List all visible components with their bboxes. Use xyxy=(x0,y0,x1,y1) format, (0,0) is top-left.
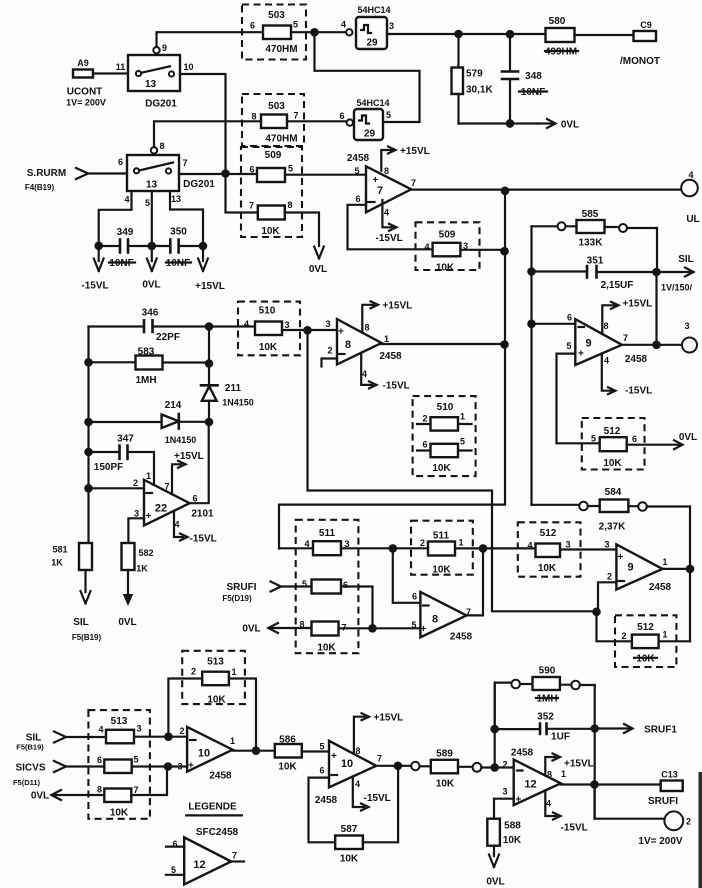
svg-text:2: 2 xyxy=(420,538,425,548)
svg-text:SFC2458: SFC2458 xyxy=(196,827,239,838)
svg-text:10K: 10K xyxy=(636,654,655,665)
svg-text:509: 509 xyxy=(265,150,282,161)
svg-text:+: + xyxy=(188,761,194,772)
svg-text:2: 2 xyxy=(133,478,138,488)
junction cap346 right xyxy=(205,322,214,331)
schmitt inverter 54HC14 (lower) xyxy=(339,98,391,140)
junction op10 output xyxy=(252,746,261,755)
pin 9 bubble xyxy=(153,47,159,53)
+15VL arrow mid op8 xyxy=(362,301,412,333)
svg-text:470HM: 470HM xyxy=(265,134,297,145)
vertical junction down to lower rail xyxy=(308,330,597,611)
svg-text:SRUFI: SRUFI xyxy=(227,582,257,593)
svg-text:-15VL: -15VL xyxy=(364,793,391,804)
left node vertical (585/351/op9 minus) xyxy=(530,226,532,505)
svg-text:0VL: 0VL xyxy=(31,791,49,802)
svg-text:348: 348 xyxy=(525,71,542,82)
svg-text:589: 589 xyxy=(436,749,453,760)
resistor 513 pins 6-5 xyxy=(97,755,139,774)
svg-text:352: 352 xyxy=(537,712,554,723)
wire SICVS to 513 xyxy=(66,765,104,767)
svg-text:4: 4 xyxy=(527,541,532,551)
svg-text:3: 3 xyxy=(389,21,394,31)
svg-text:+15VL: +15VL xyxy=(400,146,430,157)
junction dots supply row xyxy=(94,242,103,251)
svg-text:1: 1 xyxy=(458,538,463,548)
svg-text:1V/150/: 1V/150/ xyxy=(661,283,693,293)
input SRUFI xyxy=(222,582,281,604)
svg-text:4: 4 xyxy=(174,520,179,530)
junction minus node xyxy=(592,608,601,617)
junction 509-3 xyxy=(500,247,509,256)
svg-text:9: 9 xyxy=(162,43,167,53)
capacitor 347 150PF xyxy=(89,434,155,486)
resistor 509 pins 7-8 xyxy=(249,200,293,237)
leads pins 4,5,13 xyxy=(99,191,132,242)
svg-text:2: 2 xyxy=(191,667,196,677)
resistor 511 pins 8-7 xyxy=(299,620,346,654)
junction 511 output xyxy=(389,544,398,553)
module 510 (floating) dashed box xyxy=(413,396,476,476)
junction op10 plus xyxy=(164,762,173,771)
svg-text:4: 4 xyxy=(424,242,429,252)
input SIL xyxy=(16,732,66,752)
svg-text:+: + xyxy=(618,552,624,563)
svg-text:1N4150: 1N4150 xyxy=(165,435,197,445)
svg-text:3: 3 xyxy=(502,787,507,797)
capacitor 350 10NF xyxy=(152,227,203,270)
svg-text:1N4150: 1N4150 xyxy=(222,398,254,408)
svg-text:8: 8 xyxy=(603,321,608,331)
svg-text:7: 7 xyxy=(249,201,254,211)
svg-text:2: 2 xyxy=(422,414,427,424)
svg-text:7: 7 xyxy=(133,785,138,795)
svg-text:6: 6 xyxy=(632,434,637,444)
svg-text:+15VL: +15VL xyxy=(564,759,594,770)
svg-text:2458: 2458 xyxy=(347,153,370,164)
svg-text:1V= 200V: 1V= 200V xyxy=(66,98,106,108)
junction op9 output xyxy=(652,341,661,350)
svg-text:0VL: 0VL xyxy=(118,617,136,628)
wire 513 feedback right down to output xyxy=(229,679,256,752)
wire node A down to resistor 509 pin 7 xyxy=(226,174,258,213)
svg-text:UCONT: UCONT xyxy=(67,87,103,98)
svg-text:10K: 10K xyxy=(340,854,359,865)
vertical 352/589 node xyxy=(494,683,496,768)
diode 214 1N4150 xyxy=(89,400,210,445)
junction op9 minus xyxy=(527,320,536,329)
svg-text:+: + xyxy=(146,511,152,522)
wire 587 to output node xyxy=(363,766,398,843)
svg-text:350: 350 xyxy=(170,227,187,238)
svg-text:585: 585 xyxy=(582,209,599,220)
wire op7 minus feedback path xyxy=(348,205,433,250)
svg-text:4: 4 xyxy=(124,195,129,205)
svg-text:4: 4 xyxy=(546,799,551,809)
svg-text:8: 8 xyxy=(384,166,389,176)
svg-text:579: 579 xyxy=(466,69,483,80)
svg-text:510: 510 xyxy=(259,306,276,317)
wire SRUFI to 511 pin5 xyxy=(281,585,312,587)
arrow 0VL right xyxy=(538,119,579,131)
svg-text:10K: 10K xyxy=(278,762,297,773)
resistor 513 pins 8-7 xyxy=(97,785,139,819)
svg-text:6: 6 xyxy=(422,440,427,450)
analog switch DG201 (upper) xyxy=(128,55,180,110)
diode 211 1N4150 xyxy=(201,383,254,422)
svg-text:2458: 2458 xyxy=(450,632,473,643)
ground arrow -15VL xyxy=(81,250,108,292)
svg-text:3: 3 xyxy=(284,320,289,330)
resistor 510 pins 2-1 xyxy=(417,412,472,431)
wire inverter1 output main top rail xyxy=(387,33,546,35)
svg-text:1MH: 1MH xyxy=(135,375,156,386)
svg-text:SIL: SIL xyxy=(73,617,89,628)
resistor 512 pins 2-1 10K xyxy=(621,630,667,665)
svg-text:10: 10 xyxy=(341,758,353,770)
wire op22 minus input xyxy=(89,487,145,489)
capacitor 351 2,15UF xyxy=(532,256,657,292)
svg-text:2101: 2101 xyxy=(191,509,214,520)
wire op10 output xyxy=(233,750,275,752)
svg-text:/MONOT: /MONOT xyxy=(620,56,660,67)
svg-text:0VL: 0VL xyxy=(309,264,327,275)
op-amp 12 (2458) xyxy=(502,748,566,809)
svg-text:0VL: 0VL xyxy=(142,280,160,291)
svg-text:580: 580 xyxy=(549,16,566,27)
wire to op12 minus xyxy=(481,766,513,768)
svg-text:211: 211 xyxy=(225,383,242,394)
svg-text:512: 512 xyxy=(540,528,557,539)
svg-text:2458: 2458 xyxy=(649,582,672,593)
svg-text:1: 1 xyxy=(384,334,389,344)
svg-text:10K: 10K xyxy=(538,563,557,574)
svg-text:2: 2 xyxy=(502,760,507,770)
junction op10 minus xyxy=(164,732,173,741)
wire S.RURM to pin 6 xyxy=(88,172,127,174)
wire op9 minus input xyxy=(532,323,576,325)
ground arrow 0VL (588) xyxy=(486,846,504,888)
module 503 (lower) dashed box xyxy=(242,94,304,146)
svg-text:22: 22 xyxy=(155,503,167,515)
svg-text:6: 6 xyxy=(567,313,572,323)
svg-text:6: 6 xyxy=(339,111,344,121)
scan edge artifact xyxy=(699,772,702,888)
junction op8 feedback xyxy=(479,544,488,553)
arrow SRUF1 output xyxy=(595,724,678,736)
resistor 585 133K xyxy=(532,209,658,249)
svg-text:10K: 10K xyxy=(317,643,336,654)
svg-text:8: 8 xyxy=(159,141,164,151)
wire DG201 pin8 to 503 pin8 xyxy=(154,121,261,147)
svg-text:5: 5 xyxy=(293,20,298,30)
wire minus node down to 512 feedback xyxy=(597,612,632,642)
wire feedback 513 left vertical xyxy=(168,679,202,737)
wire op22 plus input to 582 xyxy=(128,518,144,543)
svg-text:5: 5 xyxy=(460,437,465,447)
svg-text:584: 584 xyxy=(605,487,622,498)
wire pin 7 output row xyxy=(179,173,258,175)
legend xyxy=(186,802,242,839)
svg-text:6: 6 xyxy=(250,21,255,31)
svg-text:0VL: 0VL xyxy=(561,120,579,131)
svg-text:8: 8 xyxy=(432,614,438,626)
svg-text:2: 2 xyxy=(179,726,184,736)
svg-text:LEGENDE: LEGENDE xyxy=(188,802,237,813)
wire op8 output feedback up xyxy=(467,548,484,615)
-15VL arrow op12 xyxy=(545,790,587,833)
open circle link 2 xyxy=(473,763,482,772)
module 510 dashed box (oscillator) xyxy=(238,302,300,356)
op-amp 9 (2458 upper) xyxy=(566,313,647,366)
svg-text:F5(D11): F5(D11) xyxy=(13,778,41,787)
wire 590 right down through outputs xyxy=(594,685,596,819)
arrow 0VL (512 module) xyxy=(627,432,697,449)
junction op9 lower output xyxy=(686,565,695,574)
resistor 580 499HM xyxy=(545,16,578,58)
svg-text:11: 11 xyxy=(116,62,126,72)
svg-text:512: 512 xyxy=(637,622,654,633)
arrow 0VL (513) xyxy=(31,790,104,802)
wire 513 pin5 to op10 plus xyxy=(132,765,187,767)
svg-text:22PF: 22PF xyxy=(156,332,180,343)
wire mid op8 output xyxy=(382,343,505,345)
svg-text:+: + xyxy=(331,751,337,762)
wire to 589 xyxy=(420,765,431,767)
op-amp 10 (2458) xyxy=(177,726,235,782)
wire op12 plus to 588 xyxy=(494,799,514,819)
svg-text:-15VL: -15VL xyxy=(561,823,588,834)
svg-text:+: + xyxy=(578,349,584,360)
svg-text:UL: UL xyxy=(686,214,699,225)
svg-text:1: 1 xyxy=(460,412,465,422)
svg-text:-15VL: -15VL xyxy=(376,233,403,244)
module 509 (right) dashed box xyxy=(416,222,480,270)
svg-text:2458: 2458 xyxy=(379,351,402,362)
svg-text:7: 7 xyxy=(164,482,169,492)
resistor 511 pins 4-3 xyxy=(304,539,349,555)
capacitor 346 22PF xyxy=(89,308,210,344)
wire junction to inverter2 output (L path) xyxy=(315,32,420,122)
wire 513 pin3 to op10 minus xyxy=(134,736,187,738)
junction 352 right xyxy=(590,724,599,733)
svg-text:+15VL: +15VL xyxy=(623,299,653,310)
svg-text:349: 349 xyxy=(117,227,134,238)
module 503 (upper) dashed box xyxy=(242,5,306,60)
svg-text:0VL: 0VL xyxy=(679,432,697,443)
-15VL arrow op10b xyxy=(353,777,391,811)
svg-text:6: 6 xyxy=(192,494,197,504)
op-amp 7 (2458) xyxy=(347,153,416,218)
svg-text:0VL: 0VL xyxy=(242,624,260,635)
svg-text:3: 3 xyxy=(565,540,570,550)
label SIL F5(B19) xyxy=(72,617,102,642)
svg-text:DG201: DG201 xyxy=(183,179,215,190)
+15VL arrow op12 xyxy=(545,754,593,776)
pin 8 bubble on DG201 lower xyxy=(151,147,157,153)
junction at 348 top xyxy=(506,30,515,39)
svg-text:SRUFI: SRUFI xyxy=(648,796,678,807)
wire A9 to pin 11 xyxy=(93,72,128,74)
svg-text:13: 13 xyxy=(146,180,158,191)
svg-text:10K: 10K xyxy=(436,263,455,274)
wire op10b minus to 587 xyxy=(309,778,336,843)
svg-text:4: 4 xyxy=(341,20,346,30)
resistor 512 pins 5-6 10K xyxy=(591,434,637,470)
svg-text:7: 7 xyxy=(411,178,416,188)
+15VL arrow op7 xyxy=(381,146,429,171)
svg-text:6: 6 xyxy=(118,157,123,167)
connector A9 xyxy=(73,58,93,78)
svg-text:3: 3 xyxy=(684,321,689,331)
resistor 584 2,37K xyxy=(532,487,691,533)
svg-text:6: 6 xyxy=(343,580,348,590)
svg-text:4: 4 xyxy=(244,319,249,329)
analog switch DG201 (lower) xyxy=(127,155,215,191)
junction 352 left xyxy=(490,725,499,734)
junction below 503 output xyxy=(310,28,319,37)
input SICVS xyxy=(13,761,66,787)
svg-text:5: 5 xyxy=(171,865,176,875)
wire 512 pin3 to op9 lower plus xyxy=(560,548,616,550)
svg-text:2: 2 xyxy=(621,631,626,641)
svg-text:A9: A9 xyxy=(77,58,89,68)
schmitt inverter 54HC14 (upper) xyxy=(341,5,394,49)
svg-text:1: 1 xyxy=(146,471,151,481)
resistor 588 10K xyxy=(487,819,522,846)
wire op9 plus input down to 512 module xyxy=(557,354,600,444)
svg-text:SICVS: SICVS xyxy=(15,763,45,774)
svg-text:3: 3 xyxy=(177,762,182,772)
svg-text:4: 4 xyxy=(98,725,103,735)
svg-text:8: 8 xyxy=(345,339,351,351)
wire 586 to op10b plus xyxy=(302,750,329,752)
resistor 513 pins 2-1 10K xyxy=(191,667,237,706)
ground arrow 0VL (509) xyxy=(309,247,327,276)
wire 509 pin8 down to ground xyxy=(285,213,319,247)
op-amp 8 (2458 mid) xyxy=(325,319,402,379)
svg-text:10: 10 xyxy=(198,748,210,760)
junction 214 right xyxy=(205,418,214,427)
svg-text:5: 5 xyxy=(288,164,293,174)
svg-text:54HC14: 54HC14 xyxy=(356,98,389,108)
resistor 510 pins 4-3 10K xyxy=(244,319,290,353)
resistor 509 pins 4-3 10K xyxy=(424,241,468,274)
svg-text:581: 581 xyxy=(52,545,67,555)
svg-text:+15VL: +15VL xyxy=(174,451,204,462)
svg-text:4: 4 xyxy=(355,779,360,789)
svg-text:SIL: SIL xyxy=(678,254,694,265)
svg-text:3: 3 xyxy=(136,724,141,734)
wire op10b output xyxy=(376,765,411,767)
svg-text:29: 29 xyxy=(364,129,376,140)
svg-text:347: 347 xyxy=(117,434,134,445)
svg-text:7: 7 xyxy=(377,754,382,764)
svg-text:1: 1 xyxy=(662,557,667,567)
resistor 583 1MH xyxy=(89,347,210,387)
svg-text:+: + xyxy=(421,624,427,635)
svg-text:+: + xyxy=(516,795,522,806)
op-amp 9 (2458 lower right) xyxy=(604,540,671,594)
svg-text:5: 5 xyxy=(591,434,596,444)
wire 511 pin6 down xyxy=(341,587,373,629)
+15VL arrow op22 xyxy=(172,451,204,494)
module 512 dashed box (to 0VL) xyxy=(582,418,645,470)
svg-text:C9: C9 xyxy=(640,20,652,30)
svg-text:5: 5 xyxy=(319,742,324,752)
svg-text:2458: 2458 xyxy=(315,795,338,806)
+15VL arrow op9 xyxy=(602,299,652,335)
svg-text:1K: 1K xyxy=(136,564,148,574)
wire output down to connector 2 xyxy=(595,785,665,819)
svg-text:511: 511 xyxy=(319,528,336,539)
wire 510 pin3 to mid op-amp xyxy=(282,329,337,331)
svg-text:4: 4 xyxy=(688,170,693,180)
resistor 586 10K xyxy=(275,735,302,773)
svg-text:7: 7 xyxy=(623,333,628,343)
svg-text:7: 7 xyxy=(377,185,383,197)
svg-text:2: 2 xyxy=(327,346,332,356)
connector C13 xyxy=(661,770,683,792)
module 512 (feedback) dashed box xyxy=(615,615,676,667)
-15VL arrow op22 xyxy=(174,511,217,545)
wire junction 511 down to op8 minus xyxy=(393,548,421,602)
junction mid op plus xyxy=(303,326,312,335)
svg-text:1: 1 xyxy=(662,630,667,640)
resistor 589 10K xyxy=(431,749,458,790)
connector circle 4 / UL xyxy=(681,170,699,225)
label UCONT 1V=200V xyxy=(66,87,106,108)
module 511 (feedback) dashed box xyxy=(411,521,473,575)
wire row 4-3 xyxy=(279,547,428,549)
svg-text:9: 9 xyxy=(585,338,591,350)
svg-text:8: 8 xyxy=(287,200,292,210)
wire mid op8 minus stub xyxy=(322,359,338,367)
resistor 512 pins 4-3 10K xyxy=(527,540,570,575)
svg-text:2,37K: 2,37K xyxy=(599,522,626,533)
wire pin10 to node A xyxy=(180,74,226,174)
svg-text:+15VL: +15VL xyxy=(374,713,404,724)
svg-text:7: 7 xyxy=(232,851,237,861)
svg-text:2458: 2458 xyxy=(511,748,534,759)
junction 583 right xyxy=(205,359,214,368)
svg-text:5: 5 xyxy=(354,166,359,176)
svg-text:6: 6 xyxy=(97,755,102,765)
svg-text:214: 214 xyxy=(165,400,182,411)
svg-text:F5(D19): F5(D19) xyxy=(222,594,252,603)
wire to module 510 xyxy=(209,325,255,327)
junction 583 left xyxy=(84,358,93,367)
resistor 513 pins 4-3 xyxy=(98,724,141,744)
resistor 581 1K xyxy=(51,543,92,604)
junction 214 left xyxy=(84,418,93,427)
svg-text:8: 8 xyxy=(355,746,360,756)
svg-text:-15VL: -15VL xyxy=(190,534,217,545)
junction at 579 xyxy=(454,30,463,39)
svg-text:5: 5 xyxy=(145,198,150,208)
junction op7 output xyxy=(501,187,510,196)
svg-text:7: 7 xyxy=(182,158,187,168)
svg-text:10K: 10K xyxy=(436,779,455,790)
svg-text:5: 5 xyxy=(133,755,138,765)
svg-text:S.RURM: S.RURM xyxy=(27,168,66,179)
resistor 510 pins 6-5 xyxy=(417,437,472,475)
svg-text:513: 513 xyxy=(207,657,224,668)
svg-text:510: 510 xyxy=(437,402,454,413)
module 511 (input) dashed box xyxy=(296,520,359,653)
svg-text:4: 4 xyxy=(604,356,609,366)
pin labels DG201 lower xyxy=(118,157,188,208)
